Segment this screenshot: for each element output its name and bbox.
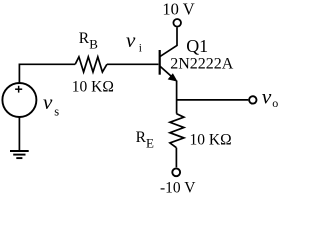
svg-text:B: B [89, 37, 98, 52]
-10V terminal circle [172, 168, 180, 176]
svg-text:10 V: 10 V [162, 0, 194, 19]
label RB [79, 30, 98, 51]
svg-text:-10 V: -10 V [160, 180, 196, 197]
svg-text:E: E [146, 135, 154, 150]
wire: RB to transistor base [107, 63, 158, 65]
svg-text:v: v [126, 28, 136, 52]
label v_s [43, 90, 59, 119]
svg-text:i: i [139, 43, 142, 55]
svg-text:10 KΩ: 10 KΩ [72, 78, 114, 95]
svg-text:v: v [262, 84, 272, 108]
plus sign of source [15, 86, 22, 93]
voltage source VS circle [2, 83, 36, 117]
wire: emitter down to output node [176, 81, 178, 114]
transistor Q1 emitter lead [160, 66, 175, 79]
ground symbol [10, 151, 29, 158]
transistor Q1 collector lead [160, 27, 177, 56]
resistor RB zigzag [75, 57, 107, 72]
wire: RE to -10V terminal [175, 148, 177, 168]
label RE [136, 129, 154, 150]
svg-text:s: s [54, 105, 59, 119]
emitter arrowhead [168, 74, 177, 81]
svg-text:Q1: Q1 [186, 36, 208, 56]
svg-text:R: R [79, 30, 90, 47]
output terminal circle [249, 96, 256, 103]
wire: source bottom to ground [18, 117, 20, 151]
wire: source top to corner to resistor RB [19, 64, 75, 83]
+10V terminal circle [173, 19, 181, 27]
transistor Q1 base bar [159, 50, 161, 75]
svg-text:v: v [43, 90, 53, 114]
node v_i label [126, 28, 142, 55]
svg-text:R: R [136, 129, 147, 146]
svg-text:10 KΩ: 10 KΩ [190, 131, 232, 148]
svg-text:2N2222A: 2N2222A [170, 55, 234, 72]
svg-text:o: o [272, 96, 278, 110]
resistor RE zigzag [170, 114, 184, 148]
label v_o [262, 84, 279, 110]
wire: node to output terminal [177, 99, 249, 101]
